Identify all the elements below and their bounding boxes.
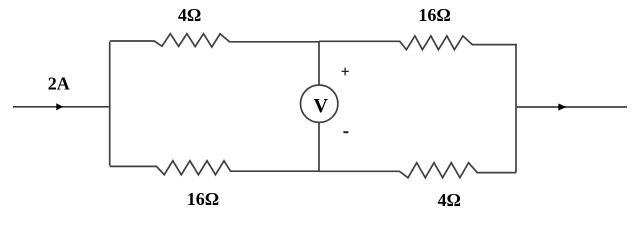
svg-text:4Ω: 4Ω — [437, 190, 460, 210]
voltmeter U1 circle — [301, 85, 338, 122]
wire left vertical — [109, 42, 111, 166]
label plus polarity — [342, 68, 349, 76]
arrowhead input current — [56, 103, 63, 110]
svg-text:16Ω: 16Ω — [187, 189, 219, 209]
resistor R4 4ohm bottom-right with leads — [319, 163, 516, 178]
svg-text:V: V — [313, 95, 328, 117]
wire right vertical — [515, 44, 517, 173]
wire voltmeter bottom lead — [318, 122, 320, 171]
svg-text:4Ω: 4Ω — [178, 5, 201, 25]
arrowhead output current — [558, 103, 566, 110]
wire output horizontal — [516, 106, 627, 108]
resistor R1 4ohm top-left with leads — [110, 34, 319, 47]
svg-text:2A: 2A — [48, 74, 70, 94]
svg-text:16Ω: 16Ω — [418, 5, 450, 25]
label minus polarity — [343, 131, 348, 133]
resistor R3 16ohm bottom-left with leads — [110, 161, 319, 175]
resistor R2 16ohm top-right with leads — [319, 36, 516, 50]
wire input horizontal — [13, 106, 109, 108]
wire voltmeter top lead — [318, 41, 320, 85]
